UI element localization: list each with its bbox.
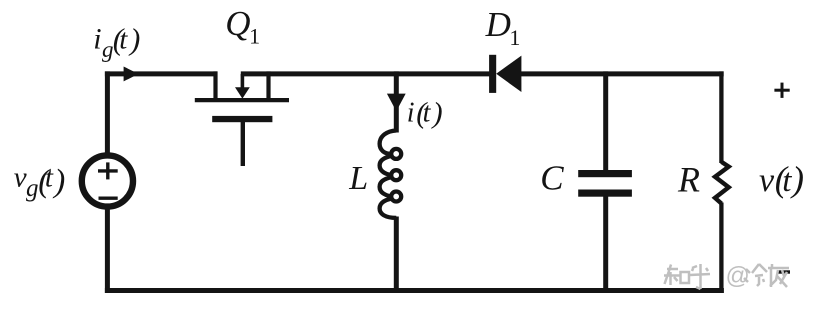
svg-text:v: v bbox=[14, 162, 27, 194]
wire: top rail right segment (D1 to top-right corner) bbox=[521, 71, 724, 76]
transistor Q1: drain vertical bbox=[213, 71, 217, 100]
transistor Q1: source vertical bbox=[266, 71, 270, 100]
wire: capacitor branch lower lead bbox=[603, 196, 608, 293]
label vg(t) bbox=[14, 162, 66, 203]
svg-text:D1: D1 bbox=[485, 5, 521, 50]
label v(t) bbox=[759, 159, 804, 199]
diode D1: cathode bar bbox=[489, 55, 496, 93]
svg-text:): ) bbox=[128, 21, 140, 56]
svg-text:t: t bbox=[423, 98, 432, 129]
wire: top rail left segment (vg to Q1 drain) bbox=[105, 71, 217, 76]
wire: bottom rail bbox=[105, 288, 724, 293]
diode D1: triangle bbox=[496, 56, 521, 92]
output minus polarity mark bbox=[779, 270, 791, 273]
output plus polarity mark bbox=[774, 83, 789, 98]
resistor R zigzag bbox=[715, 162, 729, 204]
svg-text:L: L bbox=[348, 160, 368, 197]
svg-text:C: C bbox=[540, 159, 564, 198]
svg-text:): ) bbox=[52, 163, 65, 199]
svg-text:g: g bbox=[26, 175, 39, 202]
voltage source Vg circle bbox=[82, 155, 133, 206]
svg-text:R: R bbox=[677, 160, 700, 200]
wire: right vertical upper lead to resistor bbox=[719, 71, 723, 163]
svg-text:): ) bbox=[790, 159, 804, 199]
transistor Q1: gate lead bbox=[241, 122, 245, 166]
svg-text:t: t bbox=[119, 24, 128, 56]
capacitor C: top plate bbox=[578, 170, 632, 177]
transistor Q1: channel bar bbox=[195, 98, 289, 102]
label ig(t) bbox=[93, 21, 140, 62]
arrowhead i(t) on inductor branch bbox=[387, 94, 406, 112]
transistor Q1: arrow shaft bbox=[241, 74, 245, 90]
wire: top rail middle segment (Q1 source to D1 anode-side bar) bbox=[241, 71, 490, 76]
wire: left vertical from source bottom to bottom rail bbox=[105, 208, 110, 293]
wire: inductor branch upper lead bbox=[394, 71, 399, 132]
transistor Q1: arrowhead bbox=[235, 87, 250, 98]
wire: inductor branch lower lead bbox=[394, 217, 399, 294]
svg-text:): ) bbox=[431, 96, 443, 129]
voltage source minus sign bbox=[99, 196, 118, 199]
svg-text:t: t bbox=[45, 162, 54, 194]
transistor Q1: gate bar bbox=[212, 116, 272, 122]
wire: right vertical lower lead from resistor bbox=[719, 203, 723, 294]
watermark zhihu @lengye bbox=[664, 264, 789, 289]
svg-text:t: t bbox=[782, 163, 792, 199]
svg-text:i: i bbox=[407, 98, 415, 129]
capacitor C: bottom plate bbox=[578, 190, 632, 197]
arrowhead ig(t) on top rail bbox=[124, 67, 139, 82]
inductor L coil bbox=[380, 131, 402, 218]
wire: capacitor branch upper lead bbox=[603, 71, 608, 171]
voltage source plus sign bbox=[98, 162, 118, 179]
svg-text:Q1: Q1 bbox=[225, 4, 260, 49]
svg-text:v: v bbox=[759, 162, 775, 199]
svg-text:@: @ bbox=[726, 263, 750, 290]
svg-text:i: i bbox=[93, 22, 101, 55]
wire: left vertical from top rail to source top bbox=[105, 71, 110, 154]
label i(t) bbox=[407, 96, 443, 129]
